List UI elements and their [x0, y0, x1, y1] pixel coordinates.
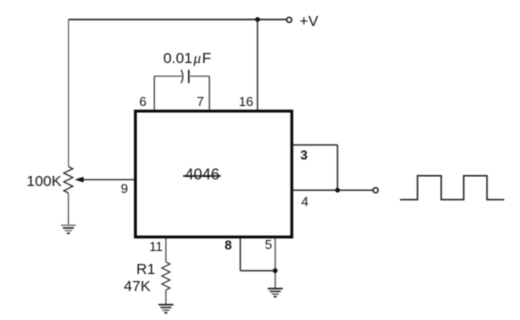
- svg-text:3: 3: [300, 147, 307, 162]
- svg-text:0.01μF: 0.01μF: [163, 50, 211, 67]
- svg-text:4046: 4046: [185, 166, 219, 183]
- svg-text:16: 16: [239, 94, 253, 109]
- svg-text:7: 7: [197, 94, 204, 109]
- svg-text:5: 5: [265, 237, 272, 252]
- svg-text:11: 11: [149, 239, 163, 254]
- svg-text:+V: +V: [300, 13, 319, 30]
- svg-text:6: 6: [139, 94, 146, 109]
- svg-text:R1: R1: [136, 261, 155, 278]
- svg-text:8: 8: [225, 238, 232, 253]
- svg-text:4: 4: [301, 194, 308, 209]
- svg-text:47K: 47K: [124, 278, 151, 295]
- svg-text:9: 9: [121, 181, 128, 196]
- svg-text:100K: 100K: [27, 173, 62, 190]
